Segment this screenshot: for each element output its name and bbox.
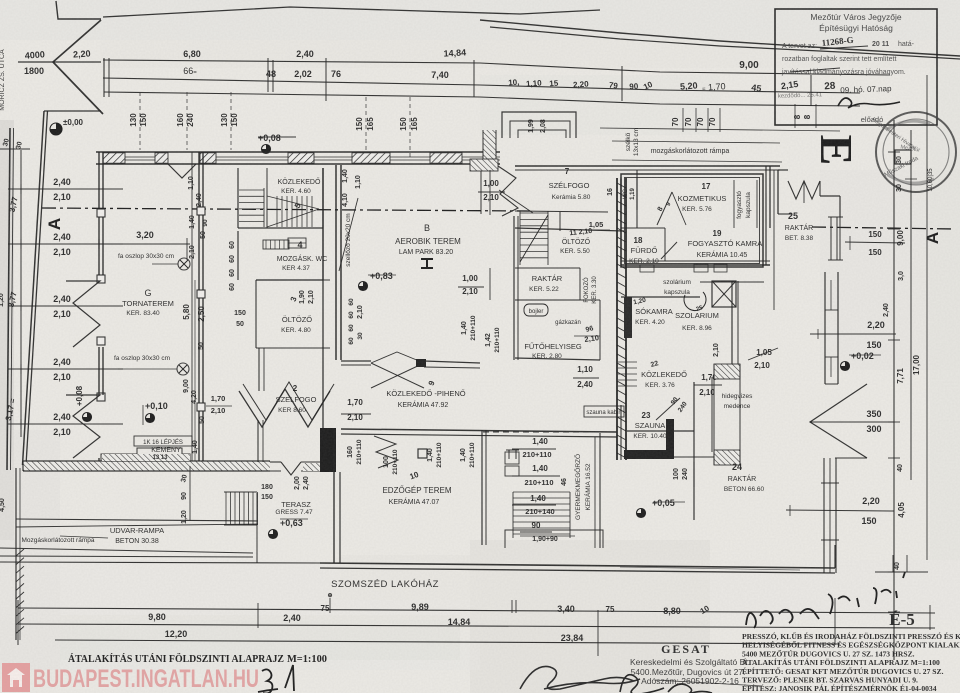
- LK 16 kemeny box: [134, 436, 192, 446]
- left stair flight horizontal treads: [239, 189, 264, 191]
- radiator symbol wc: [263, 240, 289, 249]
- approval stamp box: [775, 9, 937, 125]
- stair flight right wing: [520, 212, 548, 214]
- gym east wall folding door 1: [66, 281, 100, 347]
- north wall top edge: [96, 151, 500, 153]
- building south wall long: [320, 563, 835, 568]
- szellozo diagonal note: [339, 198, 358, 271]
- road boundary main double line: [480, 20, 960, 56]
- stair treads room 5 vertical: [276, 196, 278, 227]
- right wing top wall: [515, 165, 780, 167]
- gym east wall mid segment: [98, 347, 100, 395]
- section line A-A right part: [812, 227, 955, 229]
- section line A-A left part: [42, 208, 530, 211]
- top dim ticks: [103, 58, 105, 97]
- gym south hatched wall: [23, 461, 270, 471]
- szelfogo7 entrance zigzag: [498, 166, 518, 216]
- level mark +0.83 aerobik: [359, 282, 368, 291]
- kozmetikus room: [636, 170, 638, 228]
- level mark 0.00: [50, 123, 62, 135]
- wc fixtures: [288, 238, 306, 248]
- szolarium partition wall: [731, 281, 733, 377]
- dim row 3.20 with fa oszlop note: [99, 243, 190, 245]
- right ticks: [888, 151, 900, 153]
- gyermek area top dashed line: [483, 431, 600, 433]
- room25 M door: [788, 181, 820, 199]
- gyermek west wall: [481, 430, 483, 545]
- signature bottom middle large: [520, 666, 640, 689]
- edzogep room west wall black section: [320, 428, 336, 472]
- right wing west wall: [513, 216, 515, 360]
- left edge lower vertical pair: [19, 468, 21, 640]
- door diag sokamra-szauna: [656, 398, 680, 420]
- wall x=201 squares: [197, 207, 205, 215]
- street boundary line left: [7, 128, 10, 470]
- north wall window lines: [125, 156, 155, 158]
- level mark +0.02: [841, 362, 850, 371]
- terasz west wall: [256, 493, 258, 563]
- top dimension line D1: [103, 60, 890, 75]
- level mark +0.05: [637, 509, 646, 518]
- dashed vertical dim extensions middle: [365, 97, 367, 160]
- oltozo room 3: [256, 279, 330, 281]
- aerobik west thick wall: [335, 165, 337, 360]
- bottom chain line C2: [18, 624, 935, 628]
- level mark +0.08 top: [262, 145, 271, 154]
- column symbol in aerobik: [421, 259, 433, 268]
- gyermek stair: [513, 491, 570, 493]
- gym east wall upper: [98, 152, 100, 281]
- level mark +0.10: [146, 414, 155, 423]
- dim 2.20 150 mid right: [810, 333, 896, 335]
- wc niche: [620, 177, 622, 210]
- watermark budapest.ingatlan.hu: [2, 663, 30, 692]
- aerobik south wall with double door: [341, 360, 371, 362]
- top dimension line D3: [104, 92, 860, 106]
- north wall bottom edge: [96, 163, 500, 165]
- window strip right lower: [823, 458, 825, 573]
- left dim tick column: [20, 150, 22, 437]
- kemeny jog: [101, 448, 190, 461]
- left edge hatch marks bottom: [16, 549, 24, 556]
- udvar rampa lines: [16, 519, 258, 521]
- dim 150 150 right of room25: [845, 242, 905, 243]
- right dim vertical x=911: [910, 130, 912, 480]
- fogyaszto kamra suite box: [621, 174, 763, 267]
- kozmetikus door diagonals: [657, 192, 672, 225]
- szelfogo7 bottom wall: [515, 211, 608, 212]
- room25 window right: [830, 217, 832, 260]
- corridor wall left of room25: [773, 170, 775, 310]
- room25 walls: [819, 181, 821, 196]
- big arrowhead dim 350-300: [810, 384, 867, 458]
- black block on aerobik south wall: [416, 359, 426, 367]
- oltozo-szelfogo divider wall: [258, 348, 260, 391]
- szauna kabin label box: [584, 406, 624, 417]
- szelfogo big folding door zigzag: [239, 389, 330, 427]
- handwritten B1: [258, 669, 278, 693]
- top dimension line D2: [103, 78, 860, 93]
- signature haromszik: [746, 572, 905, 628]
- gym west wall double slanted: [23, 111, 45, 465]
- room 25 raktar: [777, 170, 779, 214]
- dim 1.70 2.10 center: [341, 413, 371, 415]
- road boundary upper line: [103, 7, 600, 17]
- stair triangle arrow: [267, 196, 319, 209]
- X window box: [712, 281, 736, 307]
- room24 west wall: [693, 382, 695, 520]
- room 5 stair box: [237, 168, 239, 228]
- furdo 18: [621, 227, 665, 229]
- gym east wall squares: [97, 209, 105, 217]
- terasz steps bottom-left of szelfogo: [225, 492, 227, 525]
- bottom chain line C3: [55, 640, 840, 644]
- north wall hatched pillars: [103, 153, 125, 163]
- right dim vertical x=927: [926, 75, 928, 560]
- hidegvizes medence pool: [714, 364, 740, 379]
- right dim vertical x=894: [893, 120, 895, 660]
- entry outer wall edge: [480, 166, 482, 214]
- futohelyiseg room: [515, 299, 600, 301]
- sauna-pool connector wall: [674, 456, 714, 458]
- gym east wall folding door 2: [66, 395, 100, 458]
- gyermek room bottom box: [505, 530, 603, 548]
- gyermek east wall: [599, 433, 601, 548]
- gyermek window boxes: [505, 452, 519, 464]
- dimension arrow 4000-1800: [18, 61, 101, 63]
- central corridor thick wall right side: [616, 178, 618, 460]
- tornaterem east wall x=201: [198, 152, 200, 461]
- round official stamp: [876, 112, 956, 192]
- porch nested rectangles: [502, 112, 576, 138]
- east wall upper segments with windows: [824, 272, 826, 384]
- bottom chain ticks: [17, 600, 19, 645]
- boiler: [524, 304, 548, 316]
- site boundary corner top-left: [56, 1, 101, 19]
- level mark +0.63 terasz: [269, 530, 278, 539]
- furdo door diagonal: [661, 242, 677, 259]
- entry hatched wall strip: [483, 130, 496, 162]
- dashed vertical dim extensions left: [139, 92, 141, 150]
- bottom chain line C1: [18, 608, 935, 613]
- szelfogo west wall lower: [257, 420, 259, 462]
- mozgask wc room: [237, 231, 239, 280]
- rampa strip lines top right: [600, 128, 840, 131]
- terasz north wall with V door: [270, 461, 281, 463]
- small stair at corridor: [618, 361, 637, 363]
- corridor west wall: [322, 168, 324, 461]
- sokamra: [621, 296, 700, 298]
- folding door on edzogep north wall: [374, 436, 398, 468]
- stamp signature squiggle: [838, 98, 900, 108]
- north wall V door: [168, 164, 196, 178]
- left window dimension rows 2.40/2.10: [8, 188, 123, 190]
- raktar room mid-left: [515, 267, 580, 269]
- south wall right return: [834, 545, 836, 568]
- small pi symbol gyermek: [508, 450, 510, 459]
- dim 2.20 1.50 bottom right: [786, 510, 894, 511]
- edzogep north wall with windows: [341, 429, 617, 432]
- furdo fixtures: [640, 265, 654, 272]
- vertical dim lines x=190-195 bottom: [191, 152, 193, 461]
- double door X swing: [371, 363, 424, 388]
- door diagonal into szelfogo: [499, 190, 533, 213]
